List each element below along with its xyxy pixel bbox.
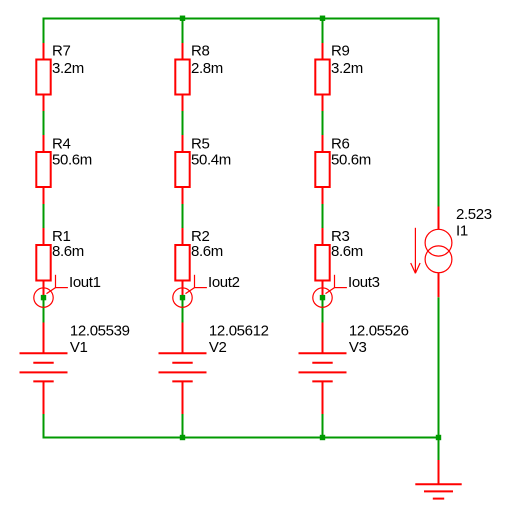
wire top bus: [43, 18, 440, 20]
svg-text:12.05612: 12.05612: [209, 323, 269, 340]
svg-text:2.523: 2.523: [456, 206, 492, 223]
svg-text:R8: R8: [191, 43, 209, 60]
wire ground stub: [438, 438, 440, 461]
battery V3: [299, 323, 347, 415]
svg-text:8.6m: 8.6m: [52, 243, 84, 260]
svg-text:I1: I1: [456, 222, 468, 239]
junction bottom bus ground: [436, 435, 441, 440]
svg-text:12.05539: 12.05539: [70, 323, 130, 340]
svg-text:Iout2: Iout2: [208, 274, 240, 291]
resistor R9: [315, 43, 329, 111]
wire right top: [438, 18, 440, 207]
wire branch3 bottom: [322, 414, 324, 439]
battery V1: [20, 323, 68, 415]
svg-text:V3: V3: [349, 339, 367, 356]
svg-text:Iout1: Iout1: [69, 274, 101, 291]
svg-text:2.8m: 2.8m: [191, 60, 223, 77]
junction bottom bus branch2: [180, 435, 185, 440]
junction probe3: [320, 295, 325, 300]
junction probe1: [41, 295, 46, 300]
svg-text:R9: R9: [331, 43, 349, 60]
wire branch2 mid1: [182, 111, 184, 135]
resistor R3: [315, 228, 329, 298]
junction top bus branch2: [180, 16, 185, 21]
wire branch2 bottom: [182, 414, 184, 439]
ground: [415, 460, 461, 499]
wire right bottom: [438, 297, 440, 438]
wire bottom bus: [43, 437, 440, 439]
current source I1: [425, 207, 452, 298]
wire branch3 mid1: [322, 111, 324, 135]
wire branch2 top: [182, 18, 184, 44]
svg-text:50.6m: 50.6m: [52, 152, 92, 169]
wire branch1 mid1: [43, 111, 45, 135]
svg-text:R5: R5: [191, 135, 209, 152]
svg-text:R4: R4: [52, 135, 70, 152]
svg-text:50.4m: 50.4m: [191, 152, 231, 169]
resistor R2: [175, 228, 189, 298]
resistor R5: [175, 135, 189, 204]
svg-text:Iout3: Iout3: [348, 274, 380, 291]
svg-text:R7: R7: [52, 43, 70, 60]
junction top bus branch3: [320, 16, 325, 21]
resistor R8: [175, 43, 189, 111]
current probe Iout2: [173, 275, 207, 308]
wire branch1 bottom: [43, 414, 45, 439]
junction probe2: [180, 295, 185, 300]
current arrow I1: [411, 228, 420, 273]
svg-text:R6: R6: [331, 135, 349, 152]
resistor R7: [36, 43, 50, 111]
svg-text:V2: V2: [209, 339, 227, 356]
svg-text:3.2m: 3.2m: [52, 60, 84, 77]
svg-text:3.2m: 3.2m: [331, 60, 363, 77]
wire branch1 mid2: [43, 204, 45, 228]
current probe Iout1: [34, 275, 68, 308]
wire branch3 mid2: [322, 204, 324, 228]
svg-text:50.6m: 50.6m: [331, 152, 371, 169]
svg-text:8.6m: 8.6m: [331, 243, 363, 260]
wire branch1 probe to battery: [43, 298, 45, 323]
wire branch3 probe to battery: [322, 298, 324, 323]
resistor R1: [36, 228, 50, 298]
current probe Iout3: [313, 275, 347, 308]
wire branch2 probe to battery: [182, 298, 184, 323]
wire branch3 top: [322, 18, 324, 44]
resistor R6: [315, 135, 329, 204]
junction bottom bus branch3: [320, 435, 325, 440]
svg-text:V1: V1: [70, 339, 88, 356]
svg-text:12.05526: 12.05526: [349, 323, 409, 340]
wire branch1 top: [43, 18, 45, 44]
wire branch2 mid2: [182, 204, 184, 228]
svg-text:8.6m: 8.6m: [191, 243, 223, 260]
resistor R4: [36, 135, 50, 204]
battery V2: [159, 323, 207, 415]
